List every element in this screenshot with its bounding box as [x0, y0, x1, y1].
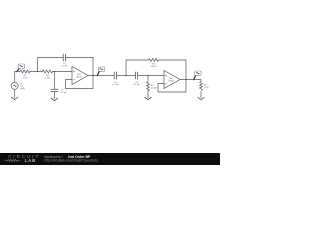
wire node B riser to C1	[54, 72, 56, 90]
capacitor C3	[114, 72, 116, 80]
resistor R5 (load)	[200, 82, 203, 91]
ground (under V1)	[11, 97, 18, 100]
wire R4 to output riser	[159, 59, 187, 61]
node B2 (C4/R3 junction)	[147, 75, 149, 77]
node OA1 output junction	[92, 75, 94, 77]
probe 1 (input)	[17, 64, 25, 71]
resistor R1	[20, 70, 30, 73]
svg-text:1 kΩ: 1 kΩ	[23, 78, 28, 80]
svg-text:http://circuitlab.com/c/6q367p: http://circuitlab.com/c/6q367pwuc3efq	[44, 159, 98, 163]
node A2 (C3/C4 junction)	[125, 75, 127, 77]
capacitor C1 (node B to ground)	[51, 89, 59, 91]
node probe1 attach	[16, 71, 18, 73]
wire R2 to op-amp OA1 + input	[53, 71, 73, 73]
voltage source V1	[11, 82, 18, 98]
capacitor C4	[135, 72, 137, 80]
resistor R2	[43, 70, 53, 73]
ground (under C1)	[51, 98, 58, 101]
wire C1 to ground	[54, 92, 56, 99]
wire OA1 output to C3	[88, 75, 114, 77]
svg-text:0.1 μF: 0.1 μF	[112, 84, 119, 86]
svg-text:10 kΩ: 10 kΩ	[151, 88, 157, 90]
node probe2 attach	[96, 75, 98, 77]
wire R1 to R2 segment	[30, 71, 43, 73]
wire OA2 - input loop	[158, 84, 186, 93]
wire V1 top lead to main line	[15, 72, 20, 83]
svg-text:1 kHz: 1 kHz	[20, 88, 26, 90]
svg-text:LM741: LM741	[76, 77, 82, 79]
node OA2 output junction	[185, 79, 187, 81]
wire output riser x=93 (C2 feedback + OA1 - loop)	[92, 58, 94, 89]
svg-text:0.1 μF: 0.1 μF	[61, 66, 68, 68]
resistor R3 (node B2 to ground)	[147, 82, 150, 91]
probe 2 (stage 1 output)	[97, 67, 105, 75]
wire node A riser to feedback cap C2	[38, 58, 64, 72]
wire R5 to ground	[200, 92, 202, 99]
node A (R1/R2 junction)	[37, 71, 39, 73]
node probe3 attach	[193, 79, 195, 81]
wire OA2 output to R5 corner	[180, 80, 201, 82]
resistor R4 (feedback)	[149, 59, 159, 62]
svg-text:0.1 μF: 0.1 μF	[133, 84, 140, 86]
probe 3 (output)	[194, 71, 201, 79]
wire C4 to OA2 + input	[138, 75, 164, 77]
footer bar	[0, 153, 220, 165]
wire C2 to output riser	[65, 57, 93, 59]
op-amp OA1	[72, 67, 88, 85]
svg-text:LM741: LM741	[168, 81, 174, 83]
ground (under R5)	[198, 97, 205, 100]
svg-text:1 kΩ: 1 kΩ	[45, 78, 50, 80]
svg-text:0.1 μF: 0.1 μF	[60, 92, 67, 94]
op-amp OA2	[164, 71, 180, 89]
wire node A2 riser to R4	[126, 60, 149, 76]
node B (R2/C1 junction)	[54, 71, 56, 73]
wire OA1 - input loop	[66, 80, 94, 89]
svg-text:LAB: LAB	[25, 158, 37, 163]
ground (under R3)	[145, 97, 152, 100]
svg-text:1 kΩ: 1 kΩ	[204, 87, 209, 89]
wire output riser x=186 (R4 feedback + OA2 - loop)	[185, 60, 187, 92]
wire node B2 riser to R3	[147, 76, 149, 83]
capacitor C2 (feedback)	[63, 54, 65, 62]
wire R3 to ground	[147, 91, 149, 98]
wire C3 to C4	[116, 75, 135, 77]
svg-text:10 kΩ: 10 kΩ	[151, 66, 157, 68]
CircuitLab logo resistor squiggle	[5, 159, 21, 161]
